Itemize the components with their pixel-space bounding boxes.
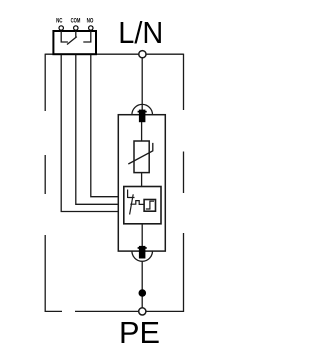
SPD plug-in module outline	[118, 115, 165, 251]
terminal circle NC	[59, 26, 63, 30]
bottom plug-in contact arc	[132, 251, 153, 261]
svg-text:COM: COM	[71, 17, 81, 24]
top plug-in contact pin	[139, 110, 146, 123]
indicator box	[144, 200, 155, 212]
NO fixed contact inside relay box	[83, 31, 91, 42]
disconnector fixed lead	[128, 190, 135, 199]
varistor diagonal with tail	[128, 143, 153, 164]
enclosure border right edge (dashed)	[183, 54, 185, 312]
thermal disconnector / monitoring box	[124, 187, 161, 224]
bottom plug-in contact pin	[139, 246, 146, 259]
svg-text:NC: NC	[56, 17, 63, 24]
terminal circle L/N on enclosure top edge	[139, 51, 146, 58]
enclosure border left edge (dashed)	[44, 54, 46, 312]
svg-text:PE: PE	[119, 315, 160, 350]
wire plug to varistor	[141, 122, 143, 141]
wire L/N drop to module top plug	[141, 58, 143, 111]
disconnector lever	[130, 194, 134, 214]
varistor body	[134, 141, 149, 173]
terminal circle COM	[74, 26, 78, 30]
indicator step glyph	[146, 201, 154, 209]
relay box K (remote signalling changeover contact)	[53, 31, 96, 54]
enclosure border top edge	[45, 53, 183, 55]
svg-text:NO: NO	[87, 17, 94, 24]
top plug-in contact arc	[132, 104, 153, 114]
terminal circle PE on enclosure bottom edge	[139, 308, 146, 315]
junction dot on PE wire	[139, 289, 147, 297]
wire NO contact to module	[91, 55, 119, 197]
disconnector wave link to indicator	[130, 201, 144, 205]
enclosure border bottom edge	[45, 310, 183, 312]
wire COM contact to module	[76, 55, 119, 205]
COM pole and lever inside relay box	[67, 31, 77, 45]
NC fixed contact inside relay box	[61, 31, 68, 42]
wire varistor to disconnector box	[141, 173, 143, 187]
terminal circle NO	[89, 26, 93, 30]
svg-text:L/N: L/N	[118, 15, 163, 50]
wire disconnector box to bottom plug	[141, 224, 143, 246]
wire NC contact to module	[61, 55, 118, 212]
wire module bottom plug to PE terminal	[141, 262, 143, 308]
